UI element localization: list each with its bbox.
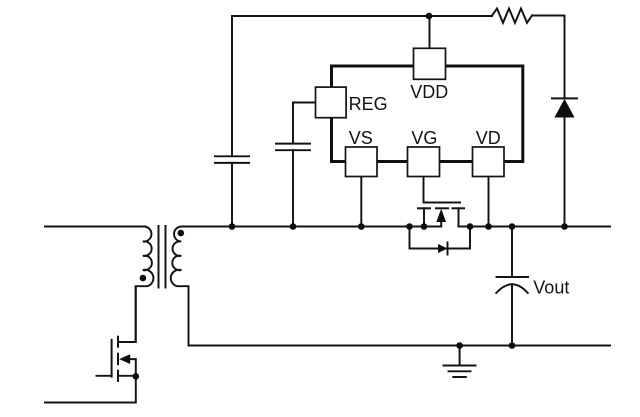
wire diode D1 to rail bbox=[564, 118, 566, 227]
diode D1 triangle bbox=[554, 99, 574, 118]
node junction dot Q2 source bbox=[421, 223, 428, 230]
pin box VDD bbox=[414, 48, 446, 79]
node junction dot C2-rail bbox=[290, 223, 297, 230]
transformer T1 primary winding bbox=[136, 227, 154, 343]
wire lower rail Vout return bbox=[189, 345, 611, 347]
transistor Q1 gate lead bbox=[97, 375, 112, 377]
diode D2 cathode bar bbox=[447, 243, 449, 255]
transistor Q1 drain lead bbox=[118, 287, 136, 342]
transistor Q2 drain lead bbox=[458, 208, 460, 226]
transformer secondary polarity dot bbox=[178, 230, 185, 237]
ground stem bbox=[459, 346, 461, 366]
svg-text:VD: VD bbox=[476, 128, 501, 148]
wire C2 bottom to rail bbox=[292, 150, 294, 226]
pin box VD bbox=[473, 147, 505, 177]
IC U1 body bbox=[332, 66, 523, 162]
node junction dot top (VDD tap) bbox=[426, 13, 433, 20]
svg-text:VG: VG bbox=[411, 128, 437, 148]
node junction dot Q1 source bbox=[133, 373, 140, 380]
wire VG stub and gate bar of Q2 bbox=[424, 177, 461, 203]
capacitor C2 bbox=[276, 144, 310, 151]
wire VS stub bbox=[360, 177, 362, 227]
svg-text:Vout: Vout bbox=[533, 278, 569, 298]
node junction dot ground-rail bbox=[456, 342, 463, 349]
pin box REG bbox=[316, 87, 347, 118]
transistor Q1 channel segments bbox=[117, 337, 119, 381]
capacitor Cout top plate and wire bbox=[497, 227, 529, 278]
resistor R1 bbox=[492, 9, 532, 23]
wire VD stub bbox=[488, 177, 490, 227]
transistor Q2 bulk arrow bbox=[436, 209, 446, 222]
wire main rail left bbox=[45, 226, 145, 228]
node junction dot diode loop right bbox=[467, 223, 474, 230]
transistor Q2 bulk lead bbox=[440, 221, 442, 227]
svg-text:REG: REG bbox=[349, 94, 388, 114]
svg-text:VDD: VDD bbox=[410, 82, 448, 102]
wire C1 bottom to rail bbox=[231, 163, 233, 227]
transformer primary polarity dot bbox=[140, 275, 147, 282]
wire REG to C2 bbox=[293, 103, 316, 144]
node junction dot D1-rail bbox=[561, 223, 568, 230]
diode D2 triangle bbox=[438, 244, 448, 253]
ground bars bbox=[444, 366, 476, 378]
wire secondary rail (main rail middle) bbox=[182, 226, 441, 228]
diode D2 body diode loop bbox=[410, 227, 471, 249]
pin box VG bbox=[408, 147, 440, 177]
node junction dot C1-rail bbox=[229, 223, 236, 230]
node junction dot VS-rail bbox=[358, 223, 365, 230]
transistor Q1 bulk arrow bbox=[119, 354, 130, 364]
wire top rail right segment bbox=[532, 16, 565, 99]
node junction dot VD-rail bbox=[485, 223, 492, 230]
transformer T1 core bbox=[159, 226, 166, 288]
wire Cout to lower rail bbox=[511, 284, 513, 345]
wire VDD stub bbox=[429, 16, 431, 48]
node junction dot Cout-rail bbox=[509, 223, 516, 230]
wire Q1 source to bottom left bbox=[45, 376, 136, 402]
transistor Q1 source lead bbox=[118, 375, 136, 377]
transistor Q2 source lead bbox=[423, 208, 425, 226]
svg-text:VS: VS bbox=[349, 128, 373, 148]
node junction dot Cout-lower rail bbox=[509, 342, 516, 349]
transistor Q1 gate bar bbox=[111, 340, 113, 377]
transistor Q2 channel segments bbox=[418, 207, 464, 209]
capacitor Cout curved plate bbox=[496, 284, 528, 293]
wire main rail right bbox=[459, 226, 611, 228]
pin box VS bbox=[346, 147, 378, 177]
transistor Q1 bulk lead bbox=[129, 359, 136, 376]
wire top rail left segment bbox=[232, 15, 492, 17]
diode D1 cathode bar bbox=[552, 97, 577, 99]
wire left vertical to C1 top bbox=[231, 16, 233, 156]
capacitor C1 bbox=[215, 156, 249, 163]
transformer T1 secondary winding bbox=[171, 226, 189, 345]
node junction dot diode loop left bbox=[406, 223, 413, 230]
